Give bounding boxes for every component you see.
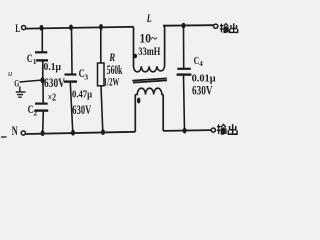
wire bottom rail right [163, 129, 211, 132]
wire choke lower left drop [134, 95, 136, 132]
svg-text:u: u [8, 68, 12, 78]
terminal N (input neutral) [21, 131, 25, 135]
svg-text:1/2W: 1/2W [104, 77, 120, 89]
junction node A (C1-C2 midpoint to ground) [41, 77, 45, 83]
terminal output top [214, 24, 218, 28]
stray scan mark bottom left [1, 136, 7, 138]
capacitor C4 [177, 26, 192, 132]
capacitor C2 [35, 81, 49, 133]
svg-text:N: N [12, 123, 18, 138]
svg-text:4: 4 [199, 60, 203, 68]
wire choke upper left drop [133, 27, 135, 67]
wire choke upper right rise [163, 26, 165, 67]
capacitor C1 [35, 28, 48, 80]
svg-text:33mH: 33mH [138, 46, 160, 58]
wire ground link [20, 80, 43, 82]
junction bottom of C2 [41, 130, 45, 136]
svg-text:R: R [109, 52, 116, 64]
svg-text:560k: 560k [107, 63, 123, 77]
wire top rail right [163, 24, 213, 27]
svg-text:G: G [14, 80, 19, 90]
junction bottom of C4 [183, 128, 187, 134]
svg-text:630V: 630V [44, 76, 65, 90]
wire bottom rail left [26, 132, 136, 134]
svg-text:630V: 630V [192, 84, 213, 98]
polarity dot upper [133, 54, 137, 59]
junction bottom of R [101, 129, 105, 135]
svg-text:10~: 10~ [140, 31, 158, 46]
svg-text:0.01μ: 0.01μ [192, 73, 216, 84]
svg-text:L: L [146, 11, 152, 25]
svg-text:1: 1 [33, 57, 37, 66]
svg-text:630V: 630V [72, 103, 91, 117]
polarity dot lower [137, 98, 140, 104]
svg-text:0.47μ: 0.47μ [72, 90, 92, 101]
terminal output bottom [211, 128, 215, 132]
wire top rail left [26, 27, 134, 29]
junction bottom of C3 [71, 130, 75, 136]
junction top of C3 [69, 25, 73, 31]
winding lower (choke) [135, 88, 163, 94]
svg-text:0.1μ: 0.1μ [44, 62, 62, 73]
resistor R [98, 27, 105, 132]
svg-text:×2: ×2 [48, 93, 57, 104]
junction top of C4 [182, 23, 186, 29]
junction top of C1 [40, 25, 44, 31]
core line 1 [132, 78, 167, 80]
svg-text:3: 3 [84, 73, 88, 82]
svg-text:L: L [15, 21, 20, 35]
text 输出 (output) bottom [217, 124, 237, 134]
wire choke lower right drop [162, 95, 164, 131]
ground [16, 87, 26, 98]
capacitor C3 [64, 28, 77, 133]
junction top of R [99, 24, 103, 30]
terminal L (input live) [22, 26, 26, 30]
text 输出 (output) top [220, 23, 238, 32]
winding upper (choke) [134, 66, 165, 72]
paper background [0, 0, 240, 160]
svg-text:2: 2 [33, 108, 37, 117]
core line 2 [133, 80, 167, 82]
